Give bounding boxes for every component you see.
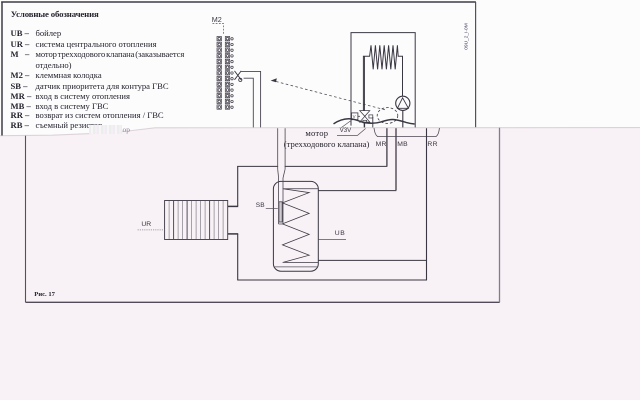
terminal block M2 bbox=[217, 37, 233, 110]
3-way valve body (vertical hourglass) bbox=[360, 111, 370, 117]
legend row RR bbox=[11, 111, 30, 120]
SB label bbox=[256, 202, 265, 209]
pump bbox=[396, 96, 410, 110]
boiler outline bbox=[351, 33, 415, 128]
UR leader line bbox=[138, 229, 165, 231]
pipe: left riser lower bbox=[237, 234, 239, 280]
figure frame right (lower) bbox=[499, 128, 501, 303]
radiator top stub bbox=[228, 205, 239, 207]
UR label bbox=[141, 221, 151, 228]
page left border (upper) bbox=[1, 2, 3, 136]
V3V label underline and pointer bbox=[337, 129, 366, 136]
pump outlet pipe bbox=[402, 110, 404, 127]
M2 dashed leader bbox=[213, 23, 225, 34]
MR label bbox=[376, 141, 387, 148]
wire from terminal row to down run 2 bbox=[244, 78, 254, 127]
boiler bottom bracket bbox=[374, 128, 439, 137]
disconnect symbol X at terminal bbox=[235, 71, 242, 80]
legend row SB bbox=[11, 82, 28, 91]
UB leader line bbox=[318, 239, 346, 241]
page top border bbox=[1, 1, 476, 3]
legend row UR bbox=[11, 40, 30, 49]
page right border (upper) bbox=[475, 2, 477, 127]
heat exchanger coil bbox=[363, 45, 402, 111]
legend row MB bbox=[11, 102, 31, 111]
valve motor box V bbox=[352, 113, 358, 120]
legend row MR bbox=[11, 92, 32, 101]
M2 label bbox=[212, 15, 222, 24]
rotated document code bbox=[445, 14, 489, 58]
valve inlet pipe from exchanger bbox=[364, 56, 366, 111]
legend row UB bbox=[11, 29, 29, 38]
tank inner bottom line bbox=[274, 266, 317, 268]
UB label bbox=[335, 230, 345, 237]
sensor well bbox=[279, 178, 283, 224]
pipe: left riser upper bbox=[237, 166, 239, 206]
MB label bbox=[397, 141, 408, 148]
tank UB bbox=[273, 181, 318, 271]
pipe MR down bbox=[386, 128, 388, 166]
tank coil bbox=[282, 189, 318, 263]
valve right branch stub bbox=[372, 117, 374, 128]
pipe: loop bottom line bbox=[237, 279, 427, 281]
valve motor letter bbox=[353, 114, 356, 119]
pipe RR down bbox=[426, 128, 428, 280]
radiator bottom stub bbox=[228, 233, 239, 235]
pipe tank outlet to RR bbox=[318, 259, 427, 261]
V3V label bbox=[340, 127, 352, 134]
legend row RB bbox=[11, 121, 29, 130]
motor label bbox=[305, 128, 328, 138]
sensor capillary tube bbox=[278, 128, 285, 169]
valve bottom port stub bbox=[363, 120, 367, 123]
motor label leader bbox=[341, 121, 350, 128]
pipe MB to tank bbox=[319, 190, 397, 192]
capillary funnel bbox=[278, 169, 285, 178]
figure frame left (lower) bbox=[25, 136, 27, 302]
legend row M2 bbox=[11, 71, 30, 80]
figure frame bottom bbox=[26, 301, 500, 303]
dashed arrow from valve to terminal block bbox=[274, 81, 385, 110]
RR label bbox=[427, 141, 437, 148]
radiator UR bbox=[165, 201, 228, 240]
wire from terminal row to down run 1 bbox=[241, 71, 261, 127]
pipe MB down bbox=[395, 128, 397, 190]
sensor bulb SB bbox=[279, 202, 282, 222]
blur patch over RB row bbox=[89, 125, 122, 134]
valve bottom stub bbox=[363, 122, 365, 127]
legend title bbox=[11, 9, 99, 19]
dashed circle (pump housing) bbox=[377, 108, 398, 124]
SB leader line bbox=[266, 207, 278, 209]
figure caption bbox=[34, 291, 55, 298]
valve right port stub bbox=[369, 115, 373, 118]
wavy tear line bbox=[334, 119, 415, 124]
pipe: loop top line bbox=[237, 165, 387, 167]
legend row M bbox=[11, 50, 30, 59]
